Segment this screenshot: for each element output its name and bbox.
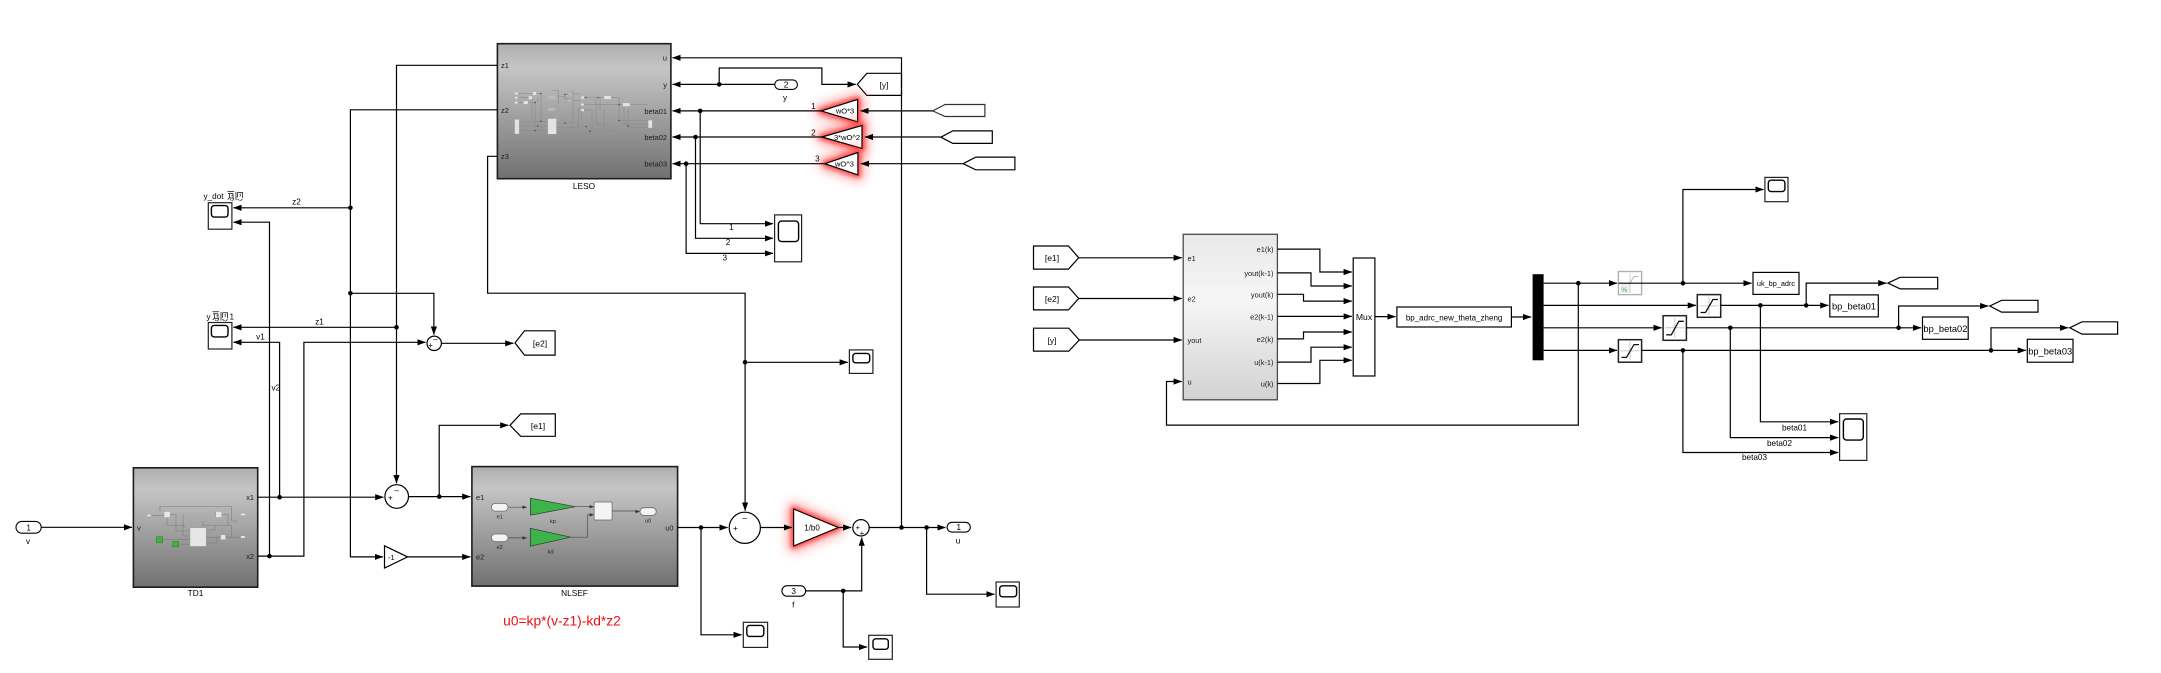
scope beta inputs (3-in): [775, 215, 802, 262]
gain wO*3 (glow): [821, 99, 858, 121]
inport 2 y: [775, 80, 798, 103]
svg-text:[y]: [y]: [1047, 335, 1056, 345]
svg-text:wO*3: wO*3: [835, 107, 854, 116]
wire z3 branch to scope: [745, 361, 848, 363]
junction beta02 tag: [1896, 326, 1901, 331]
from tag beta02 sink (empty): [2070, 322, 2118, 334]
wire u(k) to mux: [1277, 360, 1351, 383]
block bp_adrc_new_theta_zheng: [1397, 307, 1512, 327]
wire mux to bp block: [1375, 316, 1396, 318]
svg-text:yout: yout: [1188, 336, 1202, 345]
scope u0: [743, 622, 767, 647]
wire z3 to sum: [488, 156, 745, 510]
saturation 2: [1697, 295, 1720, 318]
gain 3*wO^2 (glow): [822, 126, 862, 149]
wire bp block to demux: [1511, 316, 1531, 318]
wire sat1 to uk goto: [1642, 282, 1752, 284]
wire beta02 gain to LESO: [673, 136, 822, 138]
wire v1 branch to scope: [233, 342, 279, 497]
scope y_dot: [208, 203, 232, 230]
goto tag [y]: [857, 73, 901, 95]
junction beta01 tag: [1804, 303, 1809, 308]
svg-text:1: 1: [811, 102, 816, 111]
from tag [e2]: [1034, 287, 1079, 310]
svg-text:Mux: Mux: [1356, 312, 1373, 322]
svg-text:+: +: [733, 523, 738, 533]
junction beta03 tag: [1989, 348, 1994, 353]
gain -1: [385, 546, 408, 568]
wire f to sum: [806, 538, 862, 591]
subsystem block NLSEF: [472, 467, 678, 586]
scope z3: [849, 350, 873, 374]
wire yout(k) to mux: [1277, 294, 1351, 301]
svg-text:v: v: [137, 523, 141, 532]
svg-text:e2: e2: [476, 553, 484, 562]
svg-text:LESO: LESO: [573, 181, 596, 191]
svg-text:kd: kd: [548, 549, 554, 555]
inport 3 f: [782, 586, 806, 610]
from tag beta02 source (empty): [941, 131, 992, 144]
svg-text:u: u: [956, 536, 961, 545]
svg-text:[e1]: [e1]: [531, 421, 545, 431]
wire beta01 branch to scope: [700, 111, 773, 224]
svg-text:e2(k-1): e2(k-1): [1250, 312, 1273, 321]
subsystem block bp update: [1183, 234, 1277, 399]
wire demux1 to sat1: [1544, 282, 1617, 284]
svg-text:f: f: [792, 601, 795, 610]
junction beta01: [698, 109, 703, 114]
svg-text:+: +: [388, 492, 393, 502]
wire yout(k-1) to mux: [1277, 273, 1351, 286]
svg-text:yout(k): yout(k): [1251, 290, 1274, 299]
junction u feedback: [899, 525, 904, 530]
saturation 3: [1663, 316, 1686, 341]
svg-text:u0=kp*(v-z1)-kd*z2: u0=kp*(v-z1)-kd*z2: [503, 614, 621, 629]
junction v1: [277, 495, 282, 500]
svg-text:u0: u0: [645, 519, 651, 525]
wire sat3 to bp_beta02: [1686, 327, 1921, 329]
svg-text:e1(k): e1(k): [1257, 245, 1274, 254]
svg-text:1: 1: [956, 522, 961, 532]
junction z3: [743, 360, 748, 365]
wire uk branch to scope: [1683, 190, 1764, 284]
svg-text:%: %: [1621, 287, 1627, 294]
wire demux3 to sat3: [1544, 327, 1662, 329]
wire u0 to sum: [678, 527, 728, 529]
svg-text:z2: z2: [501, 106, 509, 115]
wire u0 branch to scope: [701, 528, 742, 635]
sum e2=v2-z2: [427, 335, 441, 350]
goto tag [e2]: [515, 331, 555, 355]
svg-text:[e1]: [e1]: [1045, 253, 1059, 263]
svg-text:beta01: beta01: [1782, 424, 1807, 433]
svg-text:bp_beta03: bp_beta03: [2028, 346, 2072, 356]
junction v2: [267, 554, 272, 559]
junction beta01 scope: [1758, 303, 1763, 308]
from tag beta01 source (empty): [933, 105, 985, 117]
svg-text:bp_adrc_new_theta_zheng: bp_adrc_new_theta_zheng: [1406, 313, 1503, 322]
wire beta02 branch to tag: [1899, 306, 1989, 328]
wire z2 branch to sum: [350, 293, 434, 334]
svg-text:z2: z2: [292, 198, 301, 207]
junction uk feedback: [1576, 281, 1581, 286]
goto tag [e1]: [510, 414, 555, 436]
sum u0-z3: [729, 512, 760, 543]
scope u: [996, 582, 1019, 607]
junction beta03: [684, 161, 689, 166]
goto tag uk_bp_adrc: [1753, 272, 1799, 294]
junction u0: [699, 525, 704, 530]
svg-text:y: y: [207, 313, 212, 322]
svg-text:u: u: [1188, 378, 1192, 387]
wire u branch to scope: [927, 528, 995, 595]
wire f branch to scope: [843, 591, 867, 647]
svg-text:x2: x2: [246, 552, 254, 561]
junction z2 sum: [348, 291, 353, 296]
gain 1/b0 (glow): [794, 509, 839, 546]
junction f: [841, 589, 846, 594]
svg-text:beta03: beta03: [1742, 453, 1767, 462]
saturation 4: [1618, 340, 1641, 363]
junction u scope: [924, 525, 929, 530]
svg-text:1: 1: [230, 313, 235, 322]
wire beta03 gain to LESO: [673, 163, 825, 165]
wire sat2 to bp_beta01: [1721, 304, 1829, 306]
svg-text:3*wO^2: 3*wO^2: [834, 133, 860, 142]
wire v to TD1: [41, 526, 132, 528]
junction uk scope: [1681, 281, 1686, 286]
svg-text:1/b0: 1/b0: [804, 524, 820, 533]
svg-text:uk_bp_adrc: uk_bp_adrc: [1757, 279, 1795, 288]
inport 1 v: [16, 521, 41, 545]
wire x2 to sum (v2): [258, 342, 426, 556]
svg-text:u0: u0: [665, 523, 673, 532]
svg-text:y: y: [783, 93, 788, 102]
wire e1(k) to mux: [1277, 249, 1351, 272]
scope y guance1: [208, 323, 232, 350]
svg-text:-1: -1: [388, 553, 395, 562]
svg-text:beta02: beta02: [644, 133, 667, 142]
svg-text:–: –: [394, 485, 399, 495]
svg-text:–: –: [433, 335, 438, 344]
junction z2 scope: [348, 206, 353, 211]
wire from-tag to gain wO^3: [861, 163, 963, 165]
svg-text:3: 3: [723, 254, 728, 263]
junction y: [717, 82, 722, 87]
svg-text:[e2]: [e2]: [1045, 294, 1059, 304]
wire e2(k) to mux: [1277, 332, 1351, 339]
scope uk: [1765, 177, 1788, 201]
sum e1=v1-z1: [385, 485, 409, 509]
svg-text:e1: e1: [497, 515, 503, 521]
outport 1 u: [947, 522, 970, 545]
wire beta03 branch to scope: [686, 164, 773, 254]
svg-text:u: u: [663, 54, 667, 63]
svg-text:e1: e1: [476, 493, 484, 502]
wire demux2 to sat2: [1544, 304, 1696, 306]
svg-text:beta01: beta01: [644, 107, 667, 116]
junction beta02: [693, 135, 698, 140]
svg-text:bp_beta01: bp_beta01: [1832, 302, 1876, 312]
wire from-tag to gain 3*wO^2: [865, 136, 941, 138]
svg-text:z3: z3: [501, 152, 509, 161]
svg-text:v: v: [26, 537, 31, 546]
wire z1: [397, 65, 498, 483]
title y guance1: [207, 312, 235, 322]
from tag [y]: [1034, 328, 1080, 351]
subsystem block TD1: [133, 468, 257, 587]
from tag beta01 sink (empty): [1990, 300, 2038, 312]
wire beta01 branch to scope: [1760, 305, 1838, 421]
wire e2(k-1) to mux: [1277, 315, 1351, 317]
wire [e1] to block: [1079, 257, 1182, 259]
wire 1/b0 to sum f: [838, 527, 851, 529]
wire e1 branch to goto: [439, 425, 508, 496]
wire v2 branch to scope: [233, 222, 269, 556]
wire -1 out to NLSEF e2: [408, 556, 471, 558]
wire sum to 1/b0: [760, 527, 792, 529]
svg-text:bp_beta02: bp_beta02: [1923, 324, 1967, 334]
wire sum e2 to goto: [441, 342, 513, 344]
wire beta01 gain to LESO: [673, 110, 822, 112]
svg-text:u(k-1): u(k-1): [1254, 358, 1273, 367]
svg-text:e2(k): e2(k): [1257, 335, 1274, 344]
wire u feedback to LESO: [673, 58, 902, 528]
svg-text:–: –: [742, 512, 747, 522]
demux bar: [1533, 274, 1544, 360]
wire sum e1 to NLSEF e1: [409, 496, 471, 498]
title y_dot guance: [204, 192, 244, 202]
wire z2 branch to scope: [233, 207, 350, 209]
svg-text:e2: e2: [497, 545, 503, 551]
junction beta02 scope: [1728, 326, 1733, 331]
wire y inport to LESO: [673, 83, 775, 85]
scope betas (3-in): [1840, 414, 1867, 461]
svg-text:e2: e2: [1188, 295, 1196, 304]
svg-text:[e2]: [e2]: [533, 338, 547, 348]
wire beta03 branch to scope: [1683, 350, 1838, 452]
from tag [e1]: [1034, 246, 1079, 269]
from tag beta03 source (empty): [963, 157, 1015, 170]
svg-text:beta03: beta03: [644, 160, 667, 169]
svg-text:beta02: beta02: [1767, 439, 1792, 448]
svg-text:u(k): u(k): [1261, 380, 1274, 389]
wire y branch to goto: [719, 68, 856, 84]
svg-text:y_dot: y_dot: [204, 192, 225, 201]
svg-text:z1: z1: [315, 317, 324, 326]
mux block: [1353, 258, 1375, 376]
saturation 1 (commented): [1618, 272, 1641, 295]
wire sat4 to bp_beta03: [1642, 349, 2026, 351]
svg-text:NLSEF: NLSEF: [561, 588, 588, 598]
wire [e2] to block: [1079, 298, 1182, 300]
wire beta02 branch to scope: [696, 137, 774, 238]
svg-text:v1: v1: [256, 332, 265, 341]
wire u out: [869, 527, 945, 529]
svg-text:2: 2: [811, 128, 816, 137]
svg-text:1: 1: [729, 223, 734, 232]
svg-text:+: +: [860, 529, 865, 538]
goto tag bp_beta01: [1830, 295, 1879, 317]
gain wO^3 (glow): [825, 153, 858, 175]
wire u(k-1) to mux: [1277, 347, 1351, 362]
junction z1: [394, 325, 399, 330]
svg-text:yout(k-1): yout(k-1): [1244, 269, 1273, 278]
svg-text:[y]: [y]: [879, 80, 888, 90]
svg-text:1: 1: [26, 524, 31, 533]
wire [y] to block: [1079, 339, 1182, 341]
scope f: [869, 635, 893, 659]
svg-text:3: 3: [791, 587, 796, 596]
svg-text:3: 3: [815, 155, 820, 164]
wire demux4 to sat4: [1544, 349, 1617, 351]
wire from-tag to gain wO*3: [861, 110, 933, 112]
svg-text:2: 2: [726, 238, 731, 247]
wire beta01 branch to tag: [1806, 283, 1886, 305]
svg-text:v2: v2: [272, 383, 281, 392]
svg-text:TD1: TD1: [188, 588, 204, 598]
wire u feedback loop: [1167, 283, 1579, 425]
from tag uk sink (empty): [1888, 277, 1938, 289]
junction beta03 scope: [1681, 348, 1686, 353]
svg-text:kp: kp: [550, 519, 556, 525]
goto tag bp_beta03: [2027, 339, 2073, 362]
sum +f: [853, 520, 869, 538]
svg-text:z1: z1: [501, 61, 509, 70]
junction e1: [437, 494, 442, 499]
svg-text:e1: e1: [1188, 254, 1196, 263]
goto tag bp_beta02: [1923, 317, 1969, 339]
subsystem block LESO: [497, 44, 671, 179]
svg-text:2: 2: [784, 80, 789, 90]
svg-text:y: y: [663, 80, 667, 89]
wire beta03 branch to tag: [1991, 328, 2068, 351]
svg-text:wO^3: wO^3: [834, 160, 854, 169]
wire z1 branch to scope: [233, 326, 396, 328]
svg-text:x1: x1: [246, 493, 254, 502]
wire beta02 branch to scope: [1730, 328, 1838, 438]
wire z2 to gain -1: [350, 110, 498, 557]
wire x1 to sum: [258, 496, 384, 498]
